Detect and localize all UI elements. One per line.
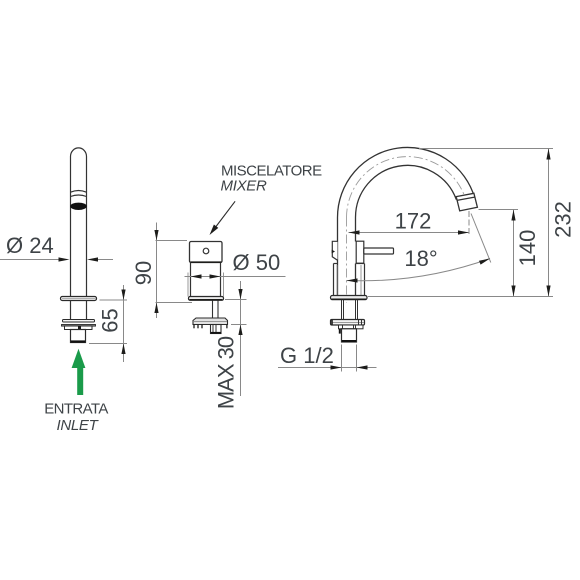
- dimension 232 arrows: [546, 149, 550, 160]
- dimension 90 extension lines: [156, 223, 193, 319]
- dimension 18deg arrows: [347, 278, 358, 282]
- spout tip extension dashed: [468, 211, 470, 237]
- green inlet arrow: [72, 349, 86, 395]
- dimension G12 arrows: [331, 365, 342, 369]
- baseline extension: [368, 296, 553, 298]
- dimension 172 arrows: [349, 230, 360, 234]
- faucet base body: [334, 264, 365, 296]
- leader arrow to mixer: [213, 201, 235, 230]
- inlet pipe body: [71, 148, 87, 297]
- dimension 90 arrows: [154, 230, 158, 241]
- svg-text:G 1/2: G 1/2: [280, 343, 334, 368]
- inlet pipe washer: [63, 320, 95, 323]
- dimension 18deg arc: [347, 259, 491, 281]
- faucet flange: [331, 296, 368, 300]
- mixer stem: [213, 301, 219, 319]
- dimension 232 extension: [419, 148, 553, 150]
- svg-text:Ø 24: Ø 24: [6, 233, 54, 258]
- inlet pipe lower tube: [71, 301, 87, 320]
- dimension 232 line: [548, 149, 550, 297]
- faucet nut dark tick: [339, 329, 341, 334]
- dimension MAX30 extension lines: [225, 281, 247, 396]
- dimension 140 arrows: [511, 210, 515, 221]
- inlet pipe tailpiece: [71, 330, 86, 343]
- faucet centerline arc dash-dot: [347, 157, 466, 218]
- svg-text:INLET: INLET: [56, 417, 99, 434]
- faucet aerator: [456, 193, 477, 211]
- inlet pipe nut: [65, 326, 93, 330]
- faucet nut: [339, 325, 364, 329]
- svg-text:65: 65: [97, 308, 122, 332]
- faucet handle wedge: [332, 250, 335, 254]
- svg-text:90: 90: [131, 261, 156, 285]
- faucet column centerline: [346, 218, 348, 304]
- mixer knob: [190, 242, 223, 263]
- dimension D24 line: [0, 259, 113, 261]
- dimension 65 arrows: [121, 290, 125, 301]
- svg-text:MAX 30: MAX 30: [213, 336, 238, 409]
- mixer flange: [189, 297, 224, 301]
- dimension MAX30 arrows: [238, 289, 242, 300]
- faucet washer plate: [331, 320, 365, 326]
- faucet gooseneck inner arc: [355, 165, 456, 217]
- faucet handle lever: [364, 248, 394, 254]
- dimension D50 line: [185, 276, 286, 278]
- mixer tailpiece: [211, 325, 222, 334]
- dimension D50 arrows: [191, 274, 202, 278]
- dimension 140 extension: [479, 209, 519, 211]
- dimension D24 arrows: [59, 257, 70, 261]
- svg-text:172: 172: [395, 209, 432, 234]
- faucet handle right block: [356, 241, 364, 263]
- inlet pipe dark ring band: [70, 203, 87, 210]
- dimension 65 extension lines: [89, 285, 127, 362]
- faucet column walls: [338, 218, 356, 296]
- mixer nut ticks: [194, 325, 227, 329]
- faucet tailpiece: [342, 329, 357, 342]
- inlet pipe grey plate: [62, 325, 96, 327]
- svg-text:18°: 18°: [404, 246, 437, 271]
- dimension 18deg slant line: [471, 214, 491, 263]
- inlet pipe flange: [61, 297, 97, 301]
- svg-text:140: 140: [515, 230, 540, 267]
- faucet handle left block: [332, 241, 337, 260]
- svg-text:MIXER: MIXER: [221, 178, 267, 195]
- svg-text:ENTRATA: ENTRATA: [44, 401, 108, 418]
- faucet stem: [342, 300, 358, 320]
- mixer washer plate: [193, 318, 228, 325]
- dimension 140 line: [513, 210, 515, 297]
- svg-text:232: 232: [550, 201, 575, 238]
- dimension 172 line: [349, 232, 470, 234]
- mixer body: [188, 263, 224, 297]
- faucet gooseneck outer arc: [337, 147, 474, 217]
- svg-text:Ø 50: Ø 50: [233, 250, 281, 275]
- dimension G12 extension lines: [278, 345, 377, 372]
